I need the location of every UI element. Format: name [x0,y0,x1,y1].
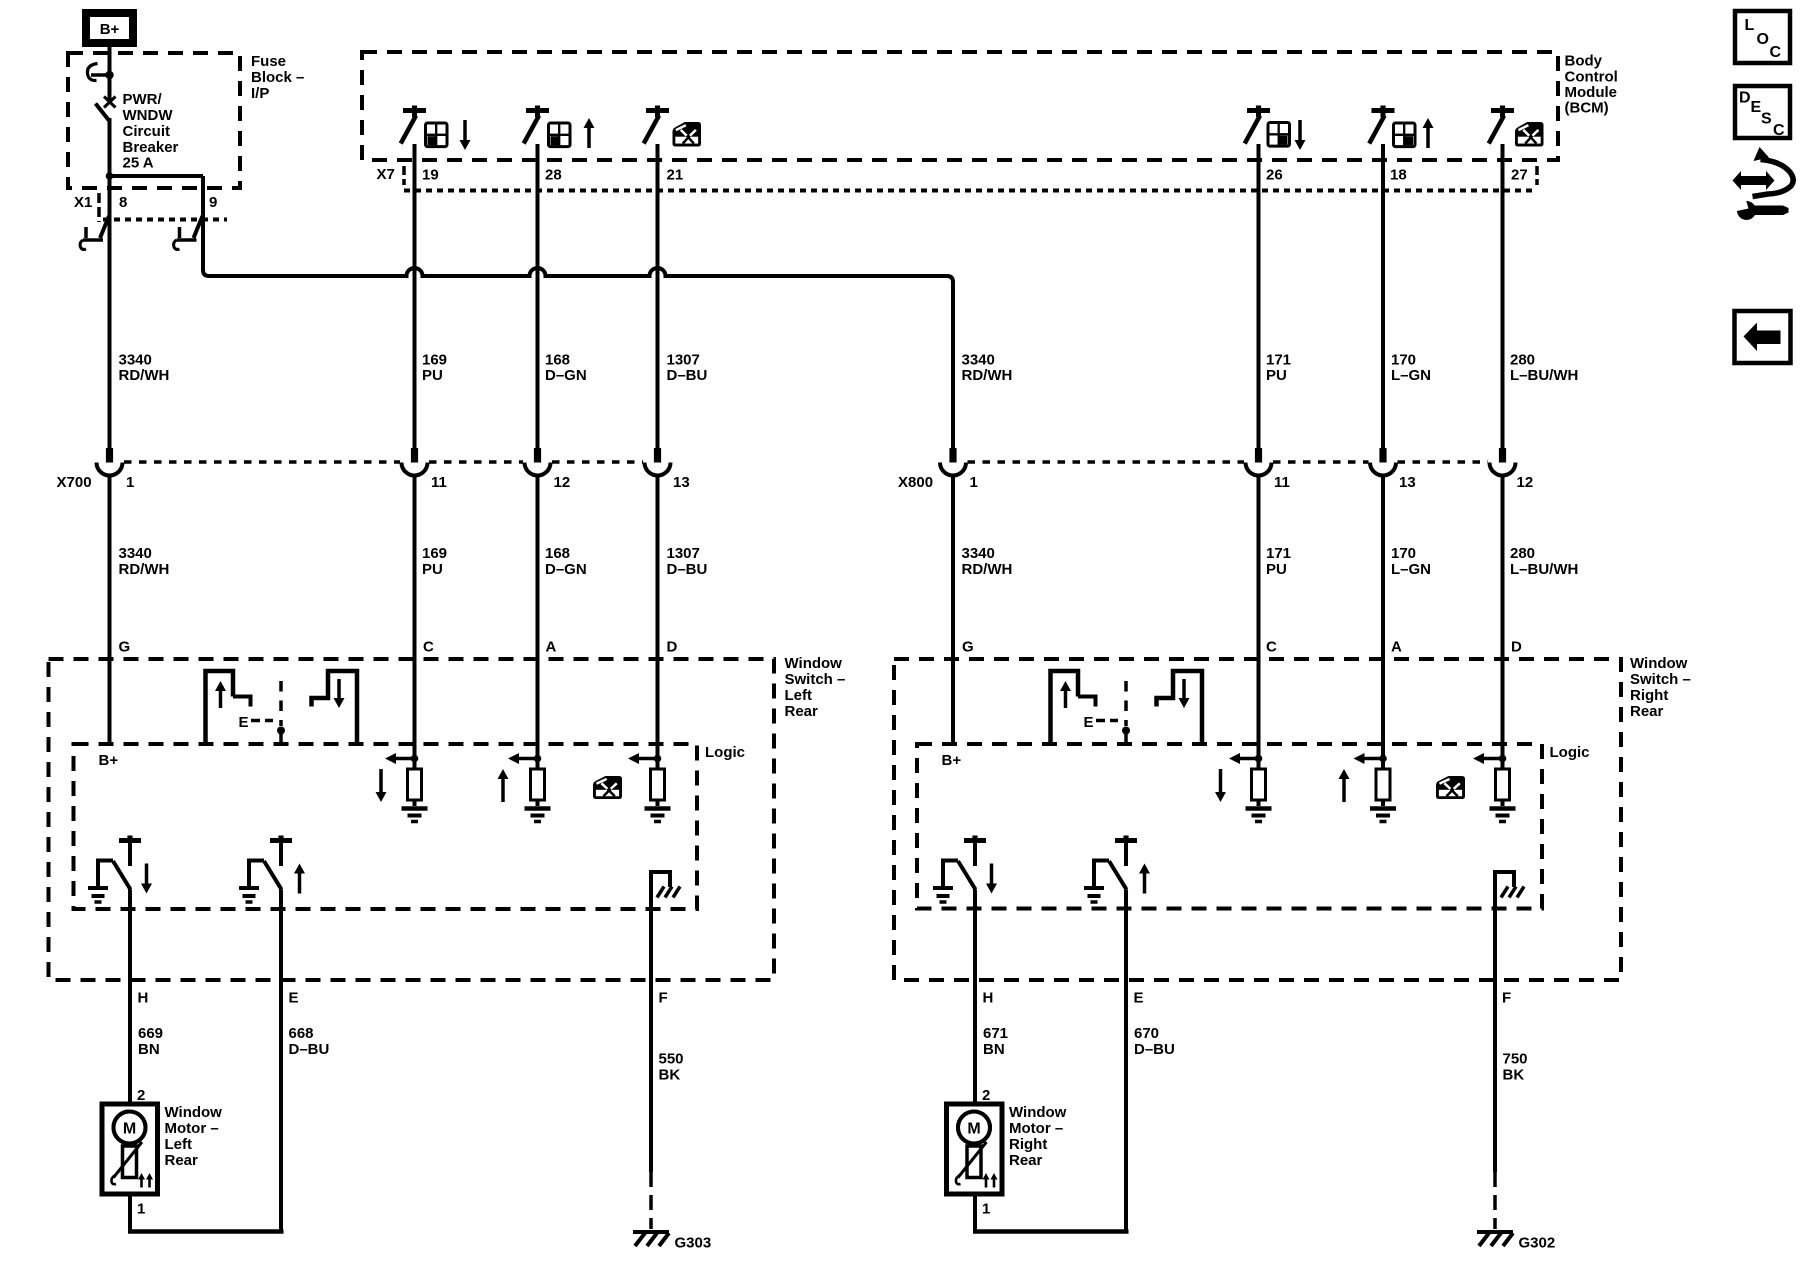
svg-text:D: D [667,639,678,656]
svg-text:BN: BN [138,1041,160,1058]
svg-text:2: 2 [982,1087,990,1104]
svg-text:WNDW: WNDW [123,107,174,124]
svg-text:B+: B+ [942,752,962,769]
svg-text:D: D [1739,90,1751,107]
svg-text:Body: Body [1565,53,1603,70]
svg-text:L: L [1745,17,1755,34]
svg-text:168: 168 [545,545,570,562]
svg-text:M: M [967,1121,980,1138]
svg-text:18: 18 [1390,167,1407,184]
svg-text:PU: PU [422,367,443,384]
svg-text:D–BU: D–BU [667,561,708,578]
svg-text:B+: B+ [99,752,119,769]
svg-text:D–GN: D–GN [545,561,587,578]
svg-text:750: 750 [1503,1051,1528,1068]
svg-text:13: 13 [1399,474,1416,491]
svg-text:RD/WH: RD/WH [119,367,170,384]
svg-text:668: 668 [289,1025,314,1042]
svg-text:Rear: Rear [165,1152,199,1169]
svg-text:L–GN: L–GN [1391,367,1431,384]
svg-text:169: 169 [422,352,447,369]
svg-text:BK: BK [1503,1067,1525,1084]
svg-text:Window: Window [785,655,843,672]
svg-text:X1: X1 [74,194,92,211]
svg-text:L–BU/WH: L–BU/WH [1510,367,1578,384]
svg-text:L–GN: L–GN [1391,561,1431,578]
svg-text:X7: X7 [377,166,395,183]
svg-text:D–BU: D–BU [667,367,708,384]
svg-text:2: 2 [137,1087,145,1104]
svg-text:RD/WH: RD/WH [962,561,1013,578]
svg-text:280: 280 [1510,545,1535,562]
svg-text:Logic: Logic [705,744,745,761]
svg-text:Motor –: Motor – [165,1120,219,1137]
svg-text:Window: Window [1009,1104,1067,1121]
svg-text:669: 669 [138,1025,163,1042]
svg-text:26: 26 [1266,167,1283,184]
svg-text:E: E [1084,714,1094,731]
svg-text:Circuit: Circuit [123,123,171,140]
svg-text:M: M [123,1121,136,1138]
svg-text:C: C [1773,122,1785,139]
svg-text:3340: 3340 [119,352,152,369]
svg-text:27: 27 [1511,167,1528,184]
svg-text:PWR/: PWR/ [123,91,163,108]
svg-text:Fuse: Fuse [251,53,286,70]
svg-text:Rear: Rear [785,703,819,720]
svg-text:1: 1 [126,474,134,491]
svg-text:21: 21 [667,167,684,184]
svg-text:12: 12 [1517,474,1534,491]
svg-text:D: D [1511,639,1522,656]
svg-text:3340: 3340 [962,545,995,562]
svg-text:C: C [1770,44,1782,61]
svg-text:Window: Window [165,1104,223,1121]
svg-text:BK: BK [659,1067,681,1084]
svg-text:1: 1 [982,1201,990,1218]
svg-text:S: S [1761,111,1772,128]
svg-text:25 A: 25 A [123,155,154,172]
svg-text:RD/WH: RD/WH [962,367,1013,384]
svg-text:9: 9 [209,194,217,211]
svg-text:3340: 3340 [119,545,152,562]
svg-text:Rear: Rear [1630,703,1664,720]
svg-text:PU: PU [1266,367,1287,384]
svg-text:Module: Module [1565,84,1618,101]
svg-text:Rear: Rear [1009,1152,1043,1169]
svg-text:G302: G302 [1519,1235,1556,1252]
svg-text:Left: Left [165,1136,193,1153]
svg-text:B+: B+ [100,21,120,38]
svg-text:171: 171 [1266,545,1291,562]
svg-text:670: 670 [1134,1025,1159,1042]
svg-text:Switch –: Switch – [785,671,846,688]
svg-text:Window: Window [1630,655,1688,672]
svg-text:BN: BN [983,1041,1005,1058]
svg-text:8: 8 [119,194,127,211]
svg-text:170: 170 [1391,352,1416,369]
svg-text:D–GN: D–GN [545,367,587,384]
svg-text:(BCM): (BCM) [1565,100,1609,117]
svg-text:X800: X800 [898,474,933,491]
svg-text:Switch –: Switch – [1630,671,1691,688]
svg-text:Breaker: Breaker [123,139,179,156]
svg-text:C: C [423,639,434,656]
svg-text:O: O [1757,31,1769,48]
svg-text:G303: G303 [675,1235,712,1252]
svg-text:C: C [1266,639,1277,656]
svg-text:X700: X700 [57,474,92,491]
svg-text:Right: Right [1630,687,1668,704]
svg-text:D–BU: D–BU [289,1041,330,1058]
svg-text:G: G [962,639,974,656]
svg-text:280: 280 [1510,352,1535,369]
svg-text:1307: 1307 [667,545,700,562]
svg-text:171: 171 [1266,352,1291,369]
svg-text:H: H [983,990,994,1007]
svg-text:A: A [546,639,557,656]
svg-text:I/P: I/P [251,85,269,102]
svg-text:L–BU/WH: L–BU/WH [1510,561,1578,578]
svg-text:E: E [1751,99,1762,116]
svg-text:12: 12 [554,474,571,491]
svg-text:3340: 3340 [962,352,995,369]
svg-text:13: 13 [673,474,690,491]
svg-text:H: H [138,990,149,1007]
svg-text:E: E [289,990,299,1007]
svg-text:28: 28 [545,167,562,184]
svg-text:D–BU: D–BU [1134,1041,1175,1058]
svg-text:550: 550 [659,1051,684,1068]
svg-text:F: F [1502,990,1511,1007]
svg-text:G: G [119,639,131,656]
svg-text:671: 671 [983,1025,1008,1042]
svg-text:168: 168 [545,352,570,369]
svg-text:RD/WH: RD/WH [119,561,170,578]
svg-text:1: 1 [970,474,978,491]
svg-text:E: E [1134,990,1144,1007]
svg-text:Block –: Block – [251,69,304,86]
svg-text:Right: Right [1009,1136,1047,1153]
svg-text:1: 1 [137,1201,145,1218]
svg-text:Motor –: Motor – [1009,1120,1063,1137]
svg-text:11: 11 [431,474,447,491]
svg-text:1307: 1307 [667,352,700,369]
svg-text:F: F [659,990,668,1007]
svg-text:Logic: Logic [1550,744,1590,761]
svg-text:11: 11 [1274,474,1290,491]
svg-text:169: 169 [422,545,447,562]
svg-text:19: 19 [422,167,439,184]
svg-text:A: A [1391,639,1402,656]
svg-text:PU: PU [422,561,443,578]
svg-text:PU: PU [1266,561,1287,578]
svg-text:Control: Control [1565,69,1618,86]
svg-text:Left: Left [785,687,813,704]
svg-text:170: 170 [1391,545,1416,562]
svg-text:E: E [239,714,249,731]
